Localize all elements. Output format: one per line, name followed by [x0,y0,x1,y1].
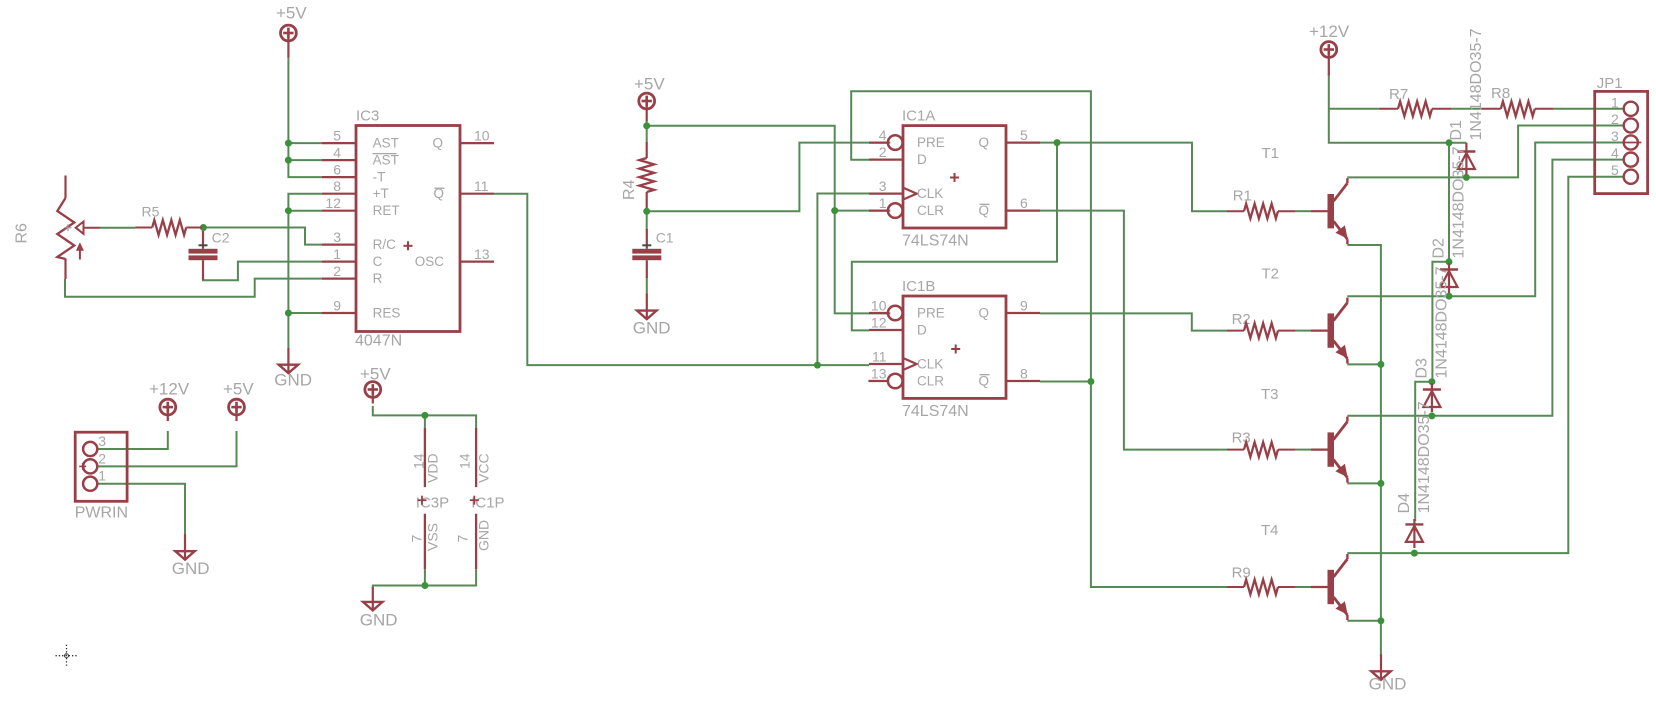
svg-text:CLR: CLR [917,203,944,218]
svg-text:4: 4 [879,127,887,143]
svg-text:+5V: +5V [223,380,254,399]
svg-text:10: 10 [871,298,887,314]
svg-text:AST: AST [373,153,399,168]
svg-text:+12V: +12V [1309,22,1350,41]
svg-text:10: 10 [474,128,490,144]
svg-text:Q: Q [978,374,989,389]
svg-text:R3: R3 [1232,430,1251,447]
svg-text:R8: R8 [1491,85,1510,102]
svg-text:D2: D2 [1431,238,1448,259]
svg-text:8: 8 [1020,366,1028,382]
svg-text:R1: R1 [1233,188,1252,205]
svg-text:Q: Q [978,203,989,218]
svg-text:CLR: CLR [917,374,944,389]
svg-text:D3: D3 [1413,358,1430,379]
svg-text:2: 2 [879,144,887,160]
svg-text:9: 9 [1020,298,1028,314]
svg-text:9: 9 [333,298,341,314]
svg-text:C1: C1 [656,230,674,246]
svg-text:7: 7 [409,535,425,543]
svg-text:+5V: +5V [634,75,665,94]
svg-text:2: 2 [1611,111,1619,127]
svg-text:R/C: R/C [373,237,397,252]
svg-text:1N4148DO35-7: 1N4148DO35-7 [1434,266,1451,378]
svg-text:T4: T4 [1261,522,1279,539]
svg-text:3: 3 [879,178,887,194]
svg-text:IC1A: IC1A [902,108,935,125]
svg-text:1N4148DO35-7: 1N4148DO35-7 [1416,401,1433,513]
svg-text:RES: RES [373,306,401,321]
svg-text:+T: +T [373,186,389,201]
svg-text:-T: -T [373,170,386,185]
svg-text:GND: GND [360,611,398,630]
svg-text:PWRIN: PWRIN [75,505,128,522]
svg-text:R: R [373,271,383,286]
svg-text:R9: R9 [1232,565,1251,582]
svg-text:D1: D1 [1448,120,1465,141]
svg-text:C2: C2 [212,230,230,246]
svg-text:74LS74N: 74LS74N [902,403,969,420]
svg-text:14: 14 [457,453,473,469]
svg-text:CLK: CLK [917,186,943,201]
svg-text:8: 8 [333,178,341,194]
svg-text:5: 5 [1611,162,1619,178]
svg-text:13: 13 [474,246,490,262]
svg-text:+12V: +12V [149,380,190,399]
svg-text:1N4148DO35-7: 1N4148DO35-7 [1451,146,1468,258]
svg-text:D4: D4 [1396,493,1413,514]
svg-text:Q: Q [978,135,989,150]
svg-text:12: 12 [871,315,887,331]
svg-text:VSS: VSS [425,523,441,551]
svg-text:T2: T2 [1262,266,1280,283]
svg-text:GND: GND [172,559,210,578]
svg-text:4: 4 [333,145,341,161]
svg-text:3: 3 [333,229,341,245]
svg-text:1: 1 [98,468,106,484]
svg-text:GND: GND [274,371,312,390]
svg-text:C: C [373,254,383,269]
svg-text:+5V: +5V [276,4,307,23]
svg-text:5: 5 [1020,127,1028,143]
svg-text:T1: T1 [1262,145,1280,162]
svg-text:7: 7 [455,535,471,543]
svg-text:CLK: CLK [917,357,943,372]
svg-text:R5: R5 [142,204,160,220]
svg-text:VCC: VCC [476,453,492,483]
svg-text:4: 4 [1611,145,1619,161]
svg-text:6: 6 [333,162,341,178]
svg-text:74LS74N: 74LS74N [902,233,969,250]
svg-text:Q: Q [432,136,443,151]
svg-text:12: 12 [325,195,341,211]
svg-text:RET: RET [373,203,400,218]
svg-text:1: 1 [333,246,341,262]
svg-text:GND: GND [476,520,492,551]
svg-text:PRE: PRE [917,306,945,321]
svg-text:11: 11 [474,178,489,194]
svg-text:IC1P: IC1P [471,495,504,512]
svg-text:IC3P: IC3P [416,495,449,512]
svg-text:13: 13 [871,366,887,382]
svg-text:JP1: JP1 [1597,75,1623,92]
svg-text:GND: GND [1369,675,1407,694]
svg-text:PRE: PRE [917,135,945,150]
svg-text:IC1B: IC1B [902,278,935,295]
svg-text:2: 2 [98,450,106,466]
svg-text:3: 3 [98,433,106,449]
svg-text:Q: Q [978,306,989,321]
svg-text:R7: R7 [1389,86,1408,103]
svg-text:T3: T3 [1261,386,1279,403]
svg-text:6: 6 [1020,195,1028,211]
svg-text:GND: GND [633,319,671,338]
svg-text:VDD: VDD [425,453,441,483]
svg-text:IC3: IC3 [356,108,379,125]
svg-text:4047N: 4047N [355,333,402,350]
svg-text:D: D [917,152,927,167]
svg-text:1: 1 [1611,94,1619,110]
svg-text:1N4148DO35-7: 1N4148DO35-7 [1468,28,1485,140]
svg-text:R4: R4 [621,179,638,200]
svg-text:1: 1 [879,195,887,211]
svg-text:OSC: OSC [415,254,445,269]
svg-text:+5V: +5V [360,365,391,384]
svg-text:AST: AST [373,136,399,151]
svg-text:D: D [917,323,927,338]
svg-text:5: 5 [333,128,341,144]
svg-text:11: 11 [872,349,887,365]
svg-text:3: 3 [1611,128,1619,144]
svg-text:2: 2 [333,263,341,279]
svg-text:R6: R6 [14,223,31,244]
